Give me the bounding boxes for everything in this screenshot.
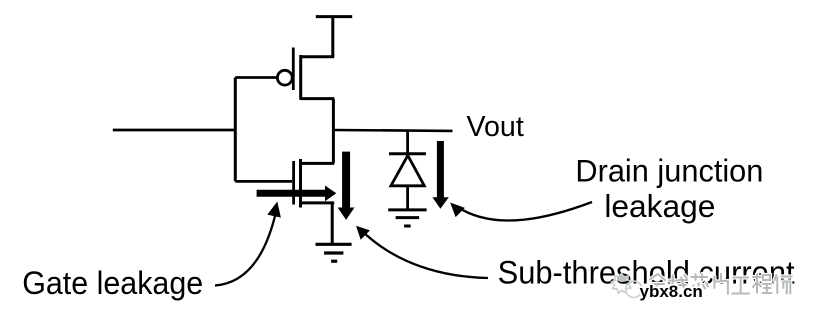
svg-text:leakage: leakage xyxy=(604,188,715,224)
transistor M1 PMOS gate bar xyxy=(292,48,295,91)
diode D1 triangle xyxy=(391,155,424,185)
transistor M2 NMOS gate bar xyxy=(292,161,295,205)
wire input horizontal xyxy=(113,129,236,132)
transistor M2 NMOS source terminal xyxy=(301,201,335,204)
wire input vertical xyxy=(234,78,237,182)
curved callout arrow from Gate leakage label xyxy=(215,202,281,286)
svg-text:Gate leakage: Gate leakage xyxy=(22,265,203,301)
ground symbol under NMOS xyxy=(316,244,352,261)
VDD supply bar xyxy=(316,15,352,18)
wire VDD to PMOS source xyxy=(331,17,334,57)
svg-text:ybx8.cn: ybx8.cn xyxy=(640,282,703,301)
svg-text:Vout: Vout xyxy=(467,111,524,143)
wire to PMOS gate xyxy=(235,76,277,79)
transistor M2 NMOS drain terminal xyxy=(301,162,335,165)
wire output node to Vout xyxy=(333,129,452,132)
wire to NMOS gate xyxy=(235,180,292,183)
svg-text:Drain junction: Drain junction xyxy=(575,153,763,189)
curved callout arrow from Drain junction leakage label xyxy=(450,202,592,221)
ground symbol under diode xyxy=(388,210,426,226)
drain junction leakage thick arrow xyxy=(432,141,448,209)
wire output to diode cathode xyxy=(406,130,409,153)
curved callout arrow from Sub-threshold current label xyxy=(356,226,488,278)
watermark logo star xyxy=(611,274,642,298)
transistor M1 PMOS gate bubble xyxy=(277,70,292,85)
transistor M2 NMOS channel bar xyxy=(299,159,302,208)
wire NMOS source to ground xyxy=(331,203,334,244)
transistor M1 PMOS source terminal xyxy=(301,55,335,58)
wire diode anode to ground xyxy=(406,186,409,210)
sub-threshold current thick arrow xyxy=(338,152,355,220)
diode D1 cathode bar xyxy=(389,152,426,155)
transistor M1 PMOS drain terminal xyxy=(301,97,335,100)
gate leakage current thick arrow xyxy=(257,186,337,202)
transistor M1 PMOS channel bar xyxy=(299,55,302,100)
wire PMOS drain to output node to NMOS drain xyxy=(332,99,335,164)
watermark pseudo CJK characters xyxy=(650,274,792,295)
